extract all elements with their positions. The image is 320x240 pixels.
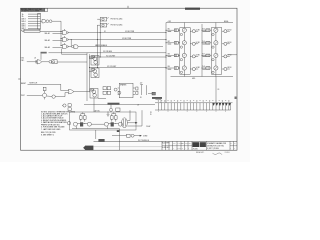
transistor AQ1 xyxy=(73,122,77,126)
matrix gnd bus wire xyxy=(171,77,234,81)
wire reset net xyxy=(28,83,61,85)
net label dark chassis xyxy=(98,139,104,142)
svg-text:B 4561 ECO: B 4561 ECO xyxy=(162,147,169,149)
wire Q3 base xyxy=(178,54,180,56)
svg-text:S6 NO: S6 NO xyxy=(227,42,231,44)
wire Q1 base xyxy=(178,29,180,31)
wires Q9 xyxy=(89,59,96,65)
wire osc feedback xyxy=(127,110,150,128)
+28V bus wire xyxy=(166,20,233,23)
input stub TB2-1 xyxy=(21,29,24,32)
matrix mid bus vertical xyxy=(201,24,203,77)
wire Q1 input xyxy=(166,29,175,32)
wire osc output arrow xyxy=(127,122,137,123)
output stage Q5A xyxy=(222,30,227,33)
buffer U4 xyxy=(72,45,79,49)
wire A bias xyxy=(77,119,87,124)
input signal CMD 6 xyxy=(21,26,38,28)
svg-text:K1: K1 xyxy=(104,31,106,33)
title strip top edge xyxy=(94,140,238,142)
svg-text:SH: SH xyxy=(230,143,232,145)
buffer U7 xyxy=(49,60,57,64)
bus lower wire xyxy=(62,53,88,55)
svg-text:U6: U6 xyxy=(34,57,36,59)
input label SEL A3 xyxy=(45,46,63,49)
inverter U2 bubbles xyxy=(46,20,52,23)
wire gate col to bus xyxy=(61,49,63,55)
wire Q5 output xyxy=(227,29,231,31)
input label OSC ON xyxy=(21,58,25,62)
svg-text:+5V: +5V xyxy=(140,83,143,85)
svg-text:IN 8: IN 8 xyxy=(202,66,205,68)
svg-text:OF: OF xyxy=(234,143,236,145)
input label SEL A2 xyxy=(45,39,63,42)
transistor Q9b xyxy=(94,61,98,65)
output stage Q7A xyxy=(222,55,227,58)
+5V bus label xyxy=(41,52,47,54)
output stage Q6A xyxy=(222,42,227,45)
wires Q10 xyxy=(89,71,96,77)
wire U3A upper input xyxy=(61,31,63,32)
buffer Q14 stage xyxy=(47,95,56,98)
resistor R8 xyxy=(206,67,210,70)
svg-text:+28V: +28V xyxy=(168,21,171,23)
input signal 2A xyxy=(22,15,38,18)
wire Q3 input xyxy=(166,54,175,57)
driver cell Q10 outline xyxy=(91,68,99,78)
output stage Q1A xyxy=(190,30,195,33)
wire Q2 input xyxy=(166,41,175,44)
driver cell Q11 xyxy=(90,89,98,99)
jumper strip TB2 xyxy=(24,29,40,32)
wire TB2 to U3A xyxy=(40,31,61,33)
wire Q8 base xyxy=(210,67,212,69)
svg-text:P4: P4 xyxy=(218,89,220,91)
svg-text:7. LAST REF DES USED: 7. LAST REF DES USED xyxy=(41,128,61,131)
wire osc output upper xyxy=(127,110,130,120)
wire Q8 output xyxy=(227,67,231,69)
resistor R26 xyxy=(136,87,138,90)
wire U3C upper input xyxy=(61,45,63,46)
wire TB1 to U1 xyxy=(40,20,42,22)
wire Q2 base xyxy=(178,42,180,44)
svg-text:K1 COIL RET: K1 COIL RET xyxy=(106,55,115,57)
svg-text:S4 NO: S4 NO xyxy=(196,67,200,69)
svg-text:REF: REF xyxy=(188,143,191,145)
wire Q7 input xyxy=(202,54,206,57)
svg-text:K1 RLY PWR: K1 RLY PWR xyxy=(125,31,135,33)
transistor Q4 xyxy=(180,66,186,74)
svg-text:8. SEE SHEET 2: 8. SEE SHEET 2 xyxy=(41,134,54,136)
driver array U11 outline xyxy=(211,28,221,75)
net Q9 collector wire xyxy=(89,57,166,58)
svg-text:P/O RLY K1 (28V): P/O RLY K1 (28V) xyxy=(111,19,123,21)
svg-text:IN 4: IN 4 xyxy=(168,66,171,68)
relay parts cluster K3 xyxy=(62,104,71,111)
input signal 1A xyxy=(22,13,38,16)
wire B bias xyxy=(108,119,118,124)
svg-text:S8 NO: S8 NO xyxy=(227,67,231,69)
wire Q4 input xyxy=(166,67,175,70)
transistor Q10a xyxy=(93,69,97,73)
input signal CMD 5 xyxy=(21,23,38,25)
transistor Q13 xyxy=(39,93,47,99)
border connector stub xyxy=(235,97,237,100)
or-gate U6 xyxy=(36,60,42,64)
connector J1 body xyxy=(155,103,233,110)
connector J1 plug pins xyxy=(213,103,231,105)
driver cell Q9 outline xyxy=(91,56,99,66)
wire pullup tie xyxy=(146,85,148,95)
relay contact K4 xyxy=(148,92,155,95)
wire K1 drive vertical xyxy=(100,19,101,57)
terminal ladder TB1 xyxy=(38,13,41,29)
input sub label Q8 xyxy=(202,68,206,71)
transistor Q6 xyxy=(212,41,218,54)
input sub label Q1 xyxy=(168,30,172,33)
wire Q5 base xyxy=(210,29,212,31)
input sub label Q4 xyxy=(168,68,172,71)
resistor R3 xyxy=(174,54,178,57)
wire Q6 base xyxy=(210,42,212,44)
and-gate U3B xyxy=(63,36,69,42)
wire +5V to U6 xyxy=(40,54,42,60)
resistor R1 xyxy=(174,29,178,32)
wire Q14 to gate U8 xyxy=(55,93,68,97)
wire R31 to Q13 xyxy=(44,91,46,94)
revision history strip xyxy=(21,8,45,12)
input sub label Q6 xyxy=(202,43,206,46)
svg-text:2 KHZ: 2 KHZ xyxy=(146,126,150,128)
net label dark OSC OUT xyxy=(108,103,120,105)
wire Q7 output xyxy=(227,55,231,57)
wire osc bottom rail xyxy=(72,126,120,128)
svg-text:TEST: TEST xyxy=(21,95,25,97)
label connector J1 xyxy=(137,97,141,106)
net label dark P/O A2 xyxy=(117,130,120,132)
revision zone box xyxy=(45,8,48,11)
svg-text:GRD: GRD xyxy=(192,78,195,80)
output stage Q2A xyxy=(190,42,195,45)
+5V power symbol xyxy=(140,83,143,95)
input sub label Q7 xyxy=(202,55,206,58)
+5V bus upper wire xyxy=(49,51,167,53)
resistor R7 xyxy=(206,54,210,57)
svg-text:S5 NO: S5 NO xyxy=(227,29,231,31)
net label dark SIG RTN xyxy=(152,97,162,99)
transistor Q8 xyxy=(212,66,218,74)
wire T1 input xyxy=(121,123,124,125)
output stage Q3A xyxy=(190,55,195,58)
svg-text:ON 1: ON 1 xyxy=(21,60,25,62)
wire K2 drive vertical xyxy=(97,25,98,68)
transistor BQ2 xyxy=(118,122,122,126)
wire Q4 base xyxy=(178,67,180,69)
handwritten mark below border xyxy=(213,153,223,155)
wire Q3 output xyxy=(195,55,199,57)
input signal CMD 4 xyxy=(21,21,38,23)
wire Q11 emitter to osc box xyxy=(93,98,95,112)
svg-text:J1: J1 xyxy=(137,105,139,107)
wire inter-stage xyxy=(91,123,104,125)
sheet border frame xyxy=(21,8,238,150)
wire osc to border xyxy=(119,129,121,151)
svg-text:D | 82577 | 7914390: D | 82577 | 7914390 xyxy=(207,148,219,150)
svg-text:S2 NO: S2 NO xyxy=(196,42,200,44)
transistor Q3 xyxy=(180,53,186,66)
resistor network R24 xyxy=(103,87,111,90)
resistor BR2 xyxy=(115,116,118,119)
driver array U10 outline xyxy=(180,28,190,75)
Q10 bias resistor xyxy=(92,69,95,71)
transistor AQ2 xyxy=(87,122,91,126)
transistor Q9a xyxy=(93,57,97,61)
wire Q5 input xyxy=(202,29,206,32)
svg-text:K2 COIL RET: K2 COIL RET xyxy=(107,66,116,68)
general notes text xyxy=(41,111,76,136)
wire lower bus xyxy=(84,104,155,106)
svg-text:P/O 7914390 G1: P/O 7914390 G1 xyxy=(138,140,149,142)
svg-text:CMD 6: CMD 6 xyxy=(21,26,26,28)
capacitor C7 xyxy=(110,105,113,112)
transformer core T3 xyxy=(111,122,114,126)
diode CR4 xyxy=(118,91,121,94)
svg-text:7914390: 7914390 xyxy=(193,148,198,150)
wire U3C output xyxy=(68,46,71,48)
wire osc box to chassis label xyxy=(95,130,97,139)
svg-text:P/O RLY K2 (28V): P/O RLY K2 (28V) xyxy=(111,25,123,27)
wire reset to gate U8 xyxy=(61,84,69,90)
input signal CMD 7 xyxy=(21,28,38,30)
and-gate U3C xyxy=(63,43,69,49)
power tie A xyxy=(81,112,85,115)
svg-text:26: 26 xyxy=(140,97,142,99)
wire to connector left xyxy=(155,100,161,103)
resistor R6 xyxy=(206,42,210,45)
input label SEL A1 xyxy=(45,32,63,35)
wire U2 output xyxy=(52,20,61,22)
vertical bus pair left xyxy=(87,53,90,101)
svg-text:CMD 7: CMD 7 xyxy=(21,28,26,30)
wire Q7 base xyxy=(210,54,212,56)
transistor Q5 xyxy=(212,28,218,41)
svg-text:RESET: RESET xyxy=(21,83,26,85)
oscillator enclosure box xyxy=(70,112,137,130)
net K1 DRIVE wire xyxy=(68,32,166,34)
resistor R2 xyxy=(174,42,178,45)
svg-text:P/O 28V BUS: P/O 28V BUS xyxy=(103,51,112,53)
svg-text:35: 35 xyxy=(150,114,152,116)
transistor Q2 xyxy=(180,41,186,54)
wire vertical to gate column xyxy=(60,21,62,45)
input sub label Q2 xyxy=(168,43,172,46)
svg-text:S3 NO: S3 NO xyxy=(196,55,200,57)
net Q10 collector wire xyxy=(89,67,166,68)
wire Q6 output xyxy=(227,42,231,44)
resistor R4 xyxy=(174,67,178,70)
transistor Q1 xyxy=(180,28,186,41)
sheet reference text on top border xyxy=(185,8,200,10)
and-gate U3A xyxy=(63,29,69,35)
array U10 bottom tie xyxy=(183,74,185,76)
resistor BR1 xyxy=(111,116,114,119)
input stub TB2-2 xyxy=(22,31,24,33)
transistor Q10b xyxy=(94,73,98,77)
relay coil K1 xyxy=(97,17,109,21)
resistor network R25 xyxy=(103,91,111,94)
transistor BQ1 xyxy=(104,122,108,126)
wire Q8 input xyxy=(202,67,206,70)
svg-text:CMD 4: CMD 4 xyxy=(21,21,26,23)
wire U7 output xyxy=(57,61,87,63)
power tie B xyxy=(112,112,116,115)
wire matrix to connector right xyxy=(216,77,219,103)
svg-text:P1: P1 xyxy=(150,112,152,114)
relay coil K2 xyxy=(97,23,109,27)
svg-text:DISTRIBUTION CONT 7914: DISTRIBUTION CONT 7914 xyxy=(207,146,224,148)
wire U6 to U7 xyxy=(42,61,49,63)
drawing number dark cell xyxy=(192,142,199,147)
transformer T1 xyxy=(122,118,128,128)
array U11 bottom tie xyxy=(215,74,217,76)
title block rev texts xyxy=(162,142,191,150)
resistor R27 xyxy=(136,91,138,94)
wire U3B branch down xyxy=(71,39,72,46)
net MATRIX EN wire xyxy=(78,46,163,48)
svg-text:CMD 5: CMD 5 xyxy=(21,23,26,25)
transformer core T2 xyxy=(80,122,83,126)
resistor AR2 xyxy=(84,116,87,119)
svg-text:MSTR CLR: MSTR CLR xyxy=(30,83,39,85)
wire Q6 input xyxy=(202,41,206,44)
wire matrix output to border xyxy=(228,54,238,56)
output stage Q8A xyxy=(222,67,227,70)
resistor AR1 xyxy=(80,116,83,119)
wire Q1 output xyxy=(195,29,199,31)
wire Q4 output xyxy=(195,67,199,69)
wire input to U6 xyxy=(27,61,37,63)
resistor R31 xyxy=(43,87,46,90)
fold mark left xyxy=(18,78,20,80)
array U11 top tie xyxy=(215,23,217,28)
and-gate U1 xyxy=(42,19,46,23)
ground symbol GND1 xyxy=(107,111,110,116)
wire R25 tie xyxy=(98,97,106,99)
title text lines xyxy=(207,142,226,150)
spare gates box U9 xyxy=(118,83,135,98)
main right bus vertical xyxy=(165,23,167,103)
wire Q2 output xyxy=(195,42,199,44)
net junction dots right bus xyxy=(166,32,167,68)
svg-text:S1 NO: S1 NO xyxy=(196,29,200,31)
sheet cell texts xyxy=(230,143,235,149)
input signal CMD 3 xyxy=(21,19,38,21)
input sub label Q5 xyxy=(202,30,206,33)
svg-text:DES: DES xyxy=(181,143,184,145)
or-gate U8 xyxy=(68,89,74,94)
svg-text:6 MHZ: 6 MHZ xyxy=(143,136,147,138)
title block cells xyxy=(162,141,237,150)
wire U3B upper input xyxy=(61,38,63,39)
output stage Q4A xyxy=(190,67,195,70)
code ident dark cell xyxy=(200,142,206,147)
array U10 top tie xyxy=(183,23,185,28)
capacitor C8 xyxy=(116,108,120,111)
svg-text:QTY: QTY xyxy=(173,143,176,145)
wire test input xyxy=(27,94,39,96)
title strip mid rule xyxy=(94,146,163,148)
microfilm block xyxy=(83,146,93,150)
resistor R5 xyxy=(206,29,210,32)
svg-text:7914390: 7914390 xyxy=(225,152,230,154)
diode CR3 xyxy=(114,88,117,91)
Q9 bias resistor xyxy=(92,56,95,58)
label connector P1 xyxy=(150,112,152,116)
wire U8 output xyxy=(74,91,90,93)
fold mark top xyxy=(127,6,129,8)
crystal Y1 xyxy=(112,134,142,137)
connector J1 pins xyxy=(158,100,230,111)
svg-text:CMD 3: CMD 3 xyxy=(21,19,26,21)
transistor Q7 xyxy=(212,53,218,66)
input sub label Q3 xyxy=(168,55,172,58)
net K2 DRIVE wire xyxy=(68,39,166,41)
transistor Q15 input side xyxy=(67,122,70,125)
svg-text:K2 RLY PWR: K2 RLY PWR xyxy=(122,38,132,40)
